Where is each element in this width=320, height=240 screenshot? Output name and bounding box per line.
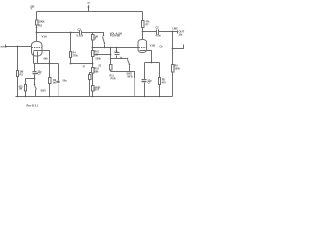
svg-text:A: A bbox=[95, 38, 97, 41]
svg-text:R2: R2 bbox=[39, 24, 43, 28]
svg-text:470: 470 bbox=[162, 82, 167, 85]
svg-text:47: 47 bbox=[83, 66, 86, 69]
svg-text:10k: 10k bbox=[179, 35, 184, 37]
svg-text:68k: 68k bbox=[95, 71, 100, 74]
svg-text:PVR: PVR bbox=[111, 78, 116, 81]
svg-text:22: 22 bbox=[99, 66, 102, 68]
svg-text:R7: R7 bbox=[146, 24, 150, 27]
svg-text:OUT: OUT bbox=[179, 30, 185, 34]
svg-text:R1: R1 bbox=[20, 73, 24, 77]
svg-text:0.022: 0.022 bbox=[77, 34, 84, 38]
svg-text:C6: C6 bbox=[160, 47, 164, 49]
svg-text:C5: C5 bbox=[156, 27, 160, 30]
svg-text:1M: 1M bbox=[95, 54, 98, 57]
svg-text:C3: C3 bbox=[78, 28, 82, 32]
svg-text:Rev B 2.1: Rev B 2.1 bbox=[27, 104, 39, 108]
svg-text:1k5: 1k5 bbox=[53, 82, 58, 85]
svg-text:LINE: LINE bbox=[173, 29, 179, 31]
svg-text:SW1: SW1 bbox=[41, 90, 47, 93]
svg-text:100k: 100k bbox=[175, 68, 181, 71]
svg-text:V1A: V1A bbox=[42, 35, 48, 39]
svg-text:B+: B+ bbox=[88, 3, 92, 5]
svg-text:B+2: B+2 bbox=[95, 89, 100, 92]
svg-text:NFB: NFB bbox=[128, 76, 133, 79]
svg-text:V: V bbox=[31, 9, 33, 11]
svg-text:6k8: 6k8 bbox=[44, 58, 49, 61]
svg-text:INPUT: INPUT bbox=[1, 47, 8, 49]
svg-text:270k: 270k bbox=[73, 55, 79, 58]
svg-text:500k: 500k bbox=[96, 58, 102, 61]
svg-text:V1B: V1B bbox=[150, 44, 156, 48]
svg-text:PLAYBK: PLAYBK bbox=[110, 35, 120, 38]
svg-text:470n: 470n bbox=[156, 35, 162, 38]
svg-text:50u: 50u bbox=[63, 80, 68, 83]
svg-text:100k: 100k bbox=[39, 20, 46, 24]
